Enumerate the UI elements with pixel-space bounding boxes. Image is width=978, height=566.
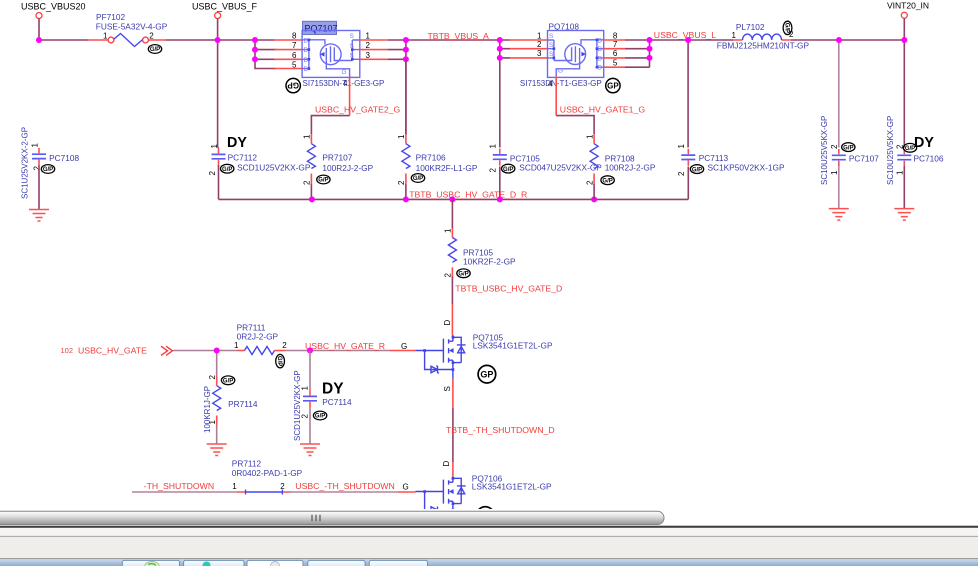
capacitor PC7107 <box>820 116 879 220</box>
svg-text:1: 1 <box>366 31 371 40</box>
text DY 1 <box>227 135 247 151</box>
svg-text:FBMJ2125HM210NT-GP: FBMJ2125HM210NT-GP <box>717 41 810 51</box>
capacitor PC7106 <box>886 116 944 220</box>
fuse PF7102 <box>96 12 168 53</box>
svg-text:GP: GP <box>287 81 299 90</box>
svg-text:PR7106: PR7106 <box>416 153 446 163</box>
junction dots top rail left <box>36 37 258 62</box>
svg-text:PC7107: PC7107 <box>849 154 879 164</box>
svg-text:SC10U25V5KX-GP: SC10U25V5KX-GP <box>886 116 895 185</box>
svg-text:PC7114: PC7114 <box>322 397 352 407</box>
svg-text:1: 1 <box>397 134 406 139</box>
svg-text:TBTB_USBC_HV_GATE_D: TBTB_USBC_HV_GATE_D <box>455 284 562 294</box>
svg-text:1: 1 <box>537 31 542 40</box>
svg-text:SCD1U25V2KX-GP: SCD1U25V2KX-GP <box>293 370 302 441</box>
wire USBC_HV_GATE row <box>173 351 415 378</box>
svg-text:D: D <box>304 66 309 73</box>
svg-text:8: 8 <box>292 31 297 40</box>
resistor PR7105 <box>444 228 516 278</box>
svg-text:S: S <box>443 386 452 391</box>
resistor PR7107 <box>303 134 374 185</box>
svg-text:PR7107: PR7107 <box>322 153 352 163</box>
svg-text:2: 2 <box>830 144 839 149</box>
svg-text:1: 1 <box>732 31 737 40</box>
svg-text:PC7112: PC7112 <box>228 153 258 163</box>
svg-text:2: 2 <box>397 180 406 185</box>
svg-text:TBTB_VBUS_A: TBTB_VBUS_A <box>428 31 490 41</box>
svg-text:10KR2F-2-GP: 10KR2F-2-GP <box>463 257 516 267</box>
svg-text:USBC_HV_GATE1_G: USBC_HV_GATE1_G <box>560 105 646 115</box>
wire -TH_SHUTDOWN row <box>132 491 416 493</box>
inductor PL7102 <box>717 21 810 50</box>
svg-text:8: 8 <box>613 31 618 40</box>
svg-text:D: D <box>598 37 603 44</box>
node TBTB_-TH_SHUTDOWN_D label <box>446 425 555 435</box>
node USBC_VBUS_F port <box>192 1 258 18</box>
wire PR7105 column / TBTB_USBC_HV_GATE_D <box>451 199 453 335</box>
svg-text:5: 5 <box>292 61 297 70</box>
wire USBC_VBUS20 rail <box>39 18 276 147</box>
svg-text:PL7102: PL7102 <box>736 22 765 32</box>
svg-text:DY: DY <box>227 135 247 151</box>
svg-text:6: 6 <box>613 49 618 58</box>
text DY 3 <box>322 380 344 397</box>
node 102 USBC_HV_GATE input <box>61 346 173 356</box>
svg-text:D: D <box>304 37 309 44</box>
svg-text:7: 7 <box>292 41 297 50</box>
svg-text:2: 2 <box>489 168 498 173</box>
wire PQ7105 source / TBTB_-TH_SHUTDOWN_D <box>452 379 454 477</box>
svg-text:1: 1 <box>444 228 453 233</box>
svg-text:7: 7 <box>613 40 618 49</box>
taskbar buttons <box>122 560 427 566</box>
svg-text:G: G <box>558 68 563 75</box>
capacitor PC7105 <box>489 144 603 174</box>
svg-text:1: 1 <box>489 144 498 149</box>
node USBC_VBUS_L label <box>654 30 716 40</box>
svg-text:1: 1 <box>303 134 312 139</box>
svg-text:S: S <box>549 33 554 40</box>
svg-text:DY: DY <box>914 135 934 151</box>
svg-text:PC7108: PC7108 <box>49 153 79 163</box>
svg-text:1: 1 <box>103 32 108 41</box>
transistor PQ7107 <box>286 21 384 93</box>
svg-text:DY: DY <box>322 380 344 397</box>
svg-text:USBC_VBUS20: USBC_VBUS20 <box>21 1 86 11</box>
svg-text:1: 1 <box>234 341 239 350</box>
svg-text:2: 2 <box>208 375 217 380</box>
svg-text:100KR1J-GP: 100KR1J-GP <box>203 386 212 433</box>
svg-text:102: 102 <box>61 346 74 355</box>
svg-text:2: 2 <box>677 171 686 176</box>
svg-text:2: 2 <box>537 40 542 49</box>
svg-text:USBC_HV_GATE2_G: USBC_HV_GATE2_G <box>315 105 401 115</box>
svg-text:6: 6 <box>292 51 297 60</box>
svg-text:S: S <box>350 43 355 50</box>
node USBC_VBUS20 port <box>21 1 86 18</box>
svg-text:D: D <box>304 57 309 64</box>
wire USBC_HV_GATE1_G <box>556 76 594 199</box>
transistor PQ7105 <box>401 320 553 392</box>
svg-text:3: 3 <box>537 49 542 58</box>
svg-text:1: 1 <box>210 144 219 149</box>
resistor PR7111 <box>234 322 287 368</box>
svg-text:2: 2 <box>303 180 312 185</box>
svg-text:USBC_HV_GATE_R: USBC_HV_GATE_R <box>305 341 385 351</box>
svg-text:FUSE-5A32V-4-GP: FUSE-5A32V-4-GP <box>96 22 168 32</box>
svg-text:100R2J-2-GP: 100R2J-2-GP <box>605 163 656 173</box>
svg-text:SCD047U25V2KX-GP: SCD047U25V2KX-GP <box>519 163 602 173</box>
text DY 2 <box>914 135 934 151</box>
svg-text:PC7106: PC7106 <box>914 154 944 164</box>
node VINT20_IN port <box>887 0 929 18</box>
svg-text:1: 1 <box>232 482 237 491</box>
junction dots USBC_VBUS_L <box>647 37 908 61</box>
svg-text:1: 1 <box>896 170 905 175</box>
svg-text:0R0402-PAD-1-GP: 0R0402-PAD-1-GP <box>232 468 303 478</box>
junction dots gate bus <box>309 196 597 202</box>
svg-text:GP: GP <box>480 370 493 380</box>
node TBTB_VBUS_A label <box>428 31 490 41</box>
wire USBC_VBUS_L rail <box>604 18 905 147</box>
svg-text:PR7112: PR7112 <box>232 459 262 469</box>
svg-text:2: 2 <box>149 32 154 41</box>
node USBC_HV_GATE2_G label <box>315 105 401 115</box>
svg-text:LSK3541G1ET2L-GP: LSK3541G1ET2L-GP <box>472 482 552 492</box>
resistor PR7114 <box>203 375 258 456</box>
svg-text:USBC_VBUS_L: USBC_VBUS_L <box>654 30 716 40</box>
junction dots gate row <box>214 348 313 354</box>
svg-text:PC7113: PC7113 <box>699 153 729 163</box>
svg-text:S: S <box>350 33 355 40</box>
svg-text:2: 2 <box>444 273 453 278</box>
svg-text:S: S <box>350 53 355 60</box>
svg-text:3: 3 <box>366 51 371 60</box>
resistor PR7112 (0R pad) <box>232 459 303 495</box>
svg-text:SC1KP50V2KX-1GP: SC1KP50V2KX-1GP <box>708 163 785 173</box>
node USBC_HV_GATE1_G label <box>560 105 646 115</box>
svg-text:D: D <box>304 47 309 54</box>
svg-text:0R2J-2-GP: 0R2J-2-GP <box>237 331 279 341</box>
svg-text:PF7102: PF7102 <box>96 12 125 22</box>
svg-text:SC10U25V5KX-GP: SC10U25V5KX-GP <box>820 116 829 185</box>
junction dots TBTB_VBUS_A <box>403 37 503 62</box>
svg-text:D: D <box>598 46 603 53</box>
svg-text:2: 2 <box>789 30 794 39</box>
svg-text:2: 2 <box>585 180 594 185</box>
svg-text:D: D <box>442 461 451 467</box>
svg-text:G: G <box>401 342 407 351</box>
wire fuse pin stubs <box>88 40 302 69</box>
svg-text:1: 1 <box>30 143 39 148</box>
svg-text:USBC_-TH_SHUTDOWN: USBC_-TH_SHUTDOWN <box>295 481 394 491</box>
svg-text:SC1U25V2KX-2-GP: SC1U25V2KX-2-GP <box>21 127 30 199</box>
node TBTB_USBC_HV_GATE_D label <box>455 284 562 294</box>
svg-text:2: 2 <box>366 41 371 50</box>
svg-text:2: 2 <box>282 341 287 350</box>
svg-text:S: S <box>549 51 554 58</box>
svg-text:1: 1 <box>830 170 839 175</box>
svg-text:100R2J-2-GP: 100R2J-2-GP <box>322 163 373 173</box>
capacitor PC7112 <box>208 144 311 200</box>
svg-text:USBC_VBUS_F: USBC_VBUS_F <box>192 1 258 11</box>
resistor PR7108 <box>585 134 655 185</box>
scrollbar area background <box>0 509 978 566</box>
svg-text:D: D <box>443 320 452 326</box>
capacitor PC7108 <box>21 127 80 221</box>
svg-text:D: D <box>598 55 603 62</box>
svg-text:100KR2F-L1-GP: 100KR2F-L1-GP <box>416 163 478 173</box>
svg-text:SI7153DN-T1-GE3-GP: SI7153DN-T1-GE3-GP <box>520 79 602 88</box>
svg-text:PR7114: PR7114 <box>228 399 258 409</box>
svg-text:D: D <box>598 65 603 72</box>
node -TH_SHUTDOWN label <box>144 481 214 491</box>
svg-text:LSK3541G1ET2L-GP: LSK3541G1ET2L-GP <box>473 341 553 351</box>
capacitor PC7114 <box>293 351 352 456</box>
svg-text:1: 1 <box>677 144 686 149</box>
svg-text:PQ7107: PQ7107 <box>305 24 338 34</box>
node TBTB_USBC_HV_GATE_D_R label <box>409 190 527 200</box>
svg-text:2: 2 <box>208 171 217 176</box>
svg-text:USBC_HV_GATE: USBC_HV_GATE <box>78 346 147 356</box>
svg-text:G: G <box>342 69 347 76</box>
svg-text:GP: GP <box>607 82 619 91</box>
svg-text:1: 1 <box>585 134 594 139</box>
transistor PQ7108 <box>520 22 620 93</box>
svg-text:-TH_SHUTDOWN: -TH_SHUTDOWN <box>144 481 214 491</box>
svg-text:G: G <box>403 483 409 492</box>
wire TBTB_VBUS_A <box>360 40 548 148</box>
svg-text:SI7153DN-T1-GE3-GP: SI7153DN-T1-GE3-GP <box>303 79 385 88</box>
svg-text:SCD1U25V2KX-GP: SCD1U25V2KX-GP <box>237 163 311 173</box>
capacitor PC7113 <box>677 144 785 177</box>
wire USBC_HV_GATE2_G <box>311 77 349 199</box>
svg-text:S: S <box>549 42 554 49</box>
wire PR7106 column <box>405 59 407 199</box>
svg-text:5: 5 <box>613 58 618 67</box>
svg-text:2: 2 <box>32 166 41 171</box>
resistor PR7106 <box>397 134 478 185</box>
wire TBTB_USBC_HV_GATE_D_R bus <box>219 167 689 200</box>
node USBC_HV_GATE_R label <box>305 341 385 351</box>
svg-text:VINT20_IN: VINT20_IN <box>887 0 929 10</box>
node USBC_-TH_SHUTDOWN label <box>295 481 394 491</box>
transistor PQ7106 <box>403 461 553 525</box>
svg-text:TBTB_-TH_SHUTDOWN_D: TBTB_-TH_SHUTDOWN_D <box>446 425 555 435</box>
svg-text:TBTB_USBC_HV_GATE_D_R: TBTB_USBC_HV_GATE_D_R <box>409 190 527 200</box>
